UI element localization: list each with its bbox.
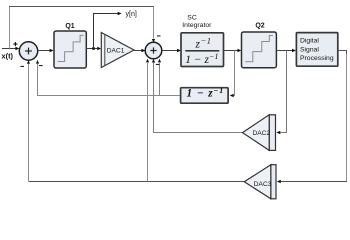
svg-text:Integrator: Integrator bbox=[182, 22, 212, 29]
quantizer Q1 bbox=[54, 31, 86, 68]
label minus at S1 bottom right bbox=[39, 65, 43, 66]
svg-text:Q2: Q2 bbox=[255, 23, 264, 30]
label minus at S1 bottom left bbox=[20, 66, 24, 67]
wire DAC3 line branch to S2 bbox=[146, 59, 149, 182]
wire y[n] tap bbox=[94, 12, 122, 49]
wire x(t) input bbox=[2, 47, 19, 50]
junction y[n] tap bbox=[92, 47, 95, 50]
block DSP bbox=[296, 33, 337, 67]
wire SC to Q2 bbox=[224, 49, 242, 52]
wire DSP to DAC3 bbox=[277, 51, 347, 184]
DAC converter DAC2 bbox=[243, 115, 276, 151]
label minus at S2 top bbox=[157, 35, 161, 36]
svg-text:Q1: Q1 bbox=[65, 23, 74, 30]
wire S1 to Q1 bbox=[38, 49, 54, 52]
svg-text:y[n]: y[n] bbox=[126, 11, 137, 18]
wire DAC2 to S2 bbox=[152, 59, 243, 133]
wire differentiator to S1 bbox=[36, 60, 181, 96]
svg-text:Digital: Digital bbox=[300, 37, 319, 44]
block differentiator 1-z^-1 bbox=[181, 86, 229, 103]
svg-text:DAC3: DAC3 bbox=[254, 181, 272, 188]
quantizer Q2 bbox=[242, 32, 277, 68]
wire Q1 to DAC1 bbox=[86, 47, 101, 50]
svg-text:Processing: Processing bbox=[300, 55, 334, 62]
svg-text:Signal: Signal bbox=[300, 46, 319, 53]
wire S2 to SC integrator bbox=[162, 49, 181, 52]
wire top feedforward to S2 bbox=[9, 6, 155, 49]
svg-text:DAC1: DAC1 bbox=[107, 48, 125, 55]
wire SC-Q2 tap to differentiator bbox=[230, 51, 235, 98]
wire Q2 to DSP bbox=[276, 49, 296, 52]
wire DAC3 to S1 bbox=[27, 60, 244, 181]
label minus at S2 bottom right bbox=[156, 64, 160, 65]
label plus at S1 input bbox=[13, 42, 17, 46]
wire Q2 output tap to DAC2 bbox=[276, 51, 286, 135]
summing junction S1 bbox=[19, 42, 37, 60]
block SC integrator bbox=[181, 33, 224, 67]
svg-text:DAC2: DAC2 bbox=[253, 130, 271, 137]
wire branch differentiator to S2 bbox=[158, 59, 161, 96]
DAC converter DAC3 bbox=[244, 165, 276, 199]
DAC converter DAC1 bbox=[101, 33, 134, 68]
svg-text:x(t): x(t) bbox=[2, 51, 14, 60]
svg-text:SC: SC bbox=[187, 15, 197, 22]
summing junction S2 bbox=[145, 42, 162, 59]
wire DAC1 to S2 bbox=[134, 49, 145, 52]
